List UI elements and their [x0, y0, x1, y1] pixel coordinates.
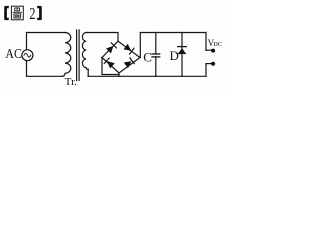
- wire: loop bottom horizontal: [27, 75, 63, 77]
- capacitor C top wire: [155, 33, 157, 55]
- wire: bridge bottom corner drop: [118, 73, 120, 76]
- wire: output top stub: [206, 49, 212, 51]
- output bottom terminal dot: [211, 62, 215, 66]
- wire: DC top rail: [140, 32, 206, 34]
- AC source circle: [22, 50, 33, 61]
- wire: loop left vertical (top part): [26, 33, 28, 50]
- wire: output top drop: [205, 33, 207, 51]
- wire: loop left vertical (bottom part): [26, 61, 28, 77]
- AC source sine: [24, 53, 31, 57]
- bridge diode upper-left (triangle apex NE): [106, 43, 117, 54]
- diode D triangle: [178, 48, 187, 54]
- transformer secondary winding: [82, 33, 88, 70]
- svg-text:C: C: [143, 50, 152, 65]
- transformer primary winding: [62, 33, 71, 77]
- bridge diode upper-right (triangle apex SE): [123, 44, 133, 54]
- transformer core line 1: [76, 30, 78, 81]
- wire: DC bottom rail: [88, 75, 206, 77]
- wire: bridge right corner riser: [139, 33, 141, 58]
- svg-text:2: 2: [29, 5, 35, 23]
- diode D cathode bar: [178, 46, 187, 48]
- diode D wire: [181, 33, 183, 77]
- svg-text:DC: DC: [213, 41, 222, 48]
- svg-text:D: D: [170, 48, 179, 63]
- title bracket left 【: [4, 6, 9, 20]
- transformer core line 2: [78, 30, 80, 81]
- wire: bridge left corner drop: [101, 58, 103, 75]
- svg-text:AC: AC: [5, 46, 21, 61]
- bridge diode lower-right (triangle apex NE): [124, 58, 134, 68]
- title bracket right 】: [37, 6, 42, 20]
- wire: bridge bottom inner segment: [102, 74, 119, 76]
- svg-text:Tr.: Tr.: [65, 76, 77, 88]
- wire: secondary bottom drop: [87, 69, 89, 76]
- wire: output bottom stub: [206, 63, 212, 65]
- capacitor C plates: [152, 53, 160, 55]
- bridge diamond edges: [102, 41, 140, 57]
- title character 圖 (drawn): [11, 6, 23, 20]
- wire: AC top rail to bridge: [86, 33, 118, 42]
- bridge diode lower-left (triangle apex NW): [104, 58, 115, 69]
- output top terminal dot: [211, 49, 215, 53]
- wire: output bottom riser: [205, 64, 207, 77]
- capacitor C bottom wire: [155, 57, 157, 76]
- wire: loop top horizontal: [27, 32, 66, 34]
